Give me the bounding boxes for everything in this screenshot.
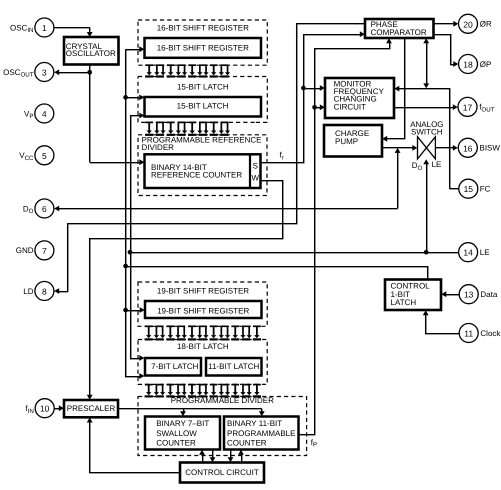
svg-text:Clock: Clock	[480, 329, 501, 338]
svg-text:PROGRAMMABLE DIVIDER: PROGRAMMABLE DIVIDER	[171, 396, 274, 405]
svg-text:CIRCUIT: CIRCUIT	[334, 103, 367, 112]
svg-text:18-BIT LATCH: 18-BIT LATCH	[177, 342, 229, 351]
svg-text:COMPARATOR: COMPARATOR	[371, 28, 427, 37]
svg-text:5: 5	[42, 151, 47, 161]
svg-text:LD: LD	[23, 287, 33, 296]
svg-text:15: 15	[464, 184, 474, 194]
svg-text:DIVIDER: DIVIDER	[142, 143, 175, 152]
svg-text:PROGRAMMABLE: PROGRAMMABLE	[227, 429, 295, 438]
svg-text:SWALLOW: SWALLOW	[156, 429, 197, 438]
svg-text:15-BIT LATCH: 15-BIT LATCH	[177, 102, 229, 111]
svg-text:BINARY 7–BIT: BINARY 7–BIT	[156, 419, 209, 428]
svg-text:8: 8	[42, 287, 47, 297]
svg-text:PUMP: PUMP	[335, 137, 358, 146]
svg-text:11: 11	[464, 329, 473, 339]
svg-text:BISW: BISW	[480, 144, 501, 153]
svg-text:10: 10	[40, 404, 50, 414]
svg-text:13: 13	[464, 290, 474, 300]
svg-text:19-BIT SHIFT REGISTER: 19-BIT SHIFT REGISTER	[157, 306, 249, 315]
svg-text:4: 4	[42, 109, 47, 119]
svg-text:18: 18	[463, 60, 473, 70]
svg-text:Data: Data	[480, 290, 497, 299]
svg-text:14: 14	[463, 248, 473, 258]
svg-text:ØP: ØP	[480, 60, 492, 69]
svg-text:11-BIT LATCH: 11-BIT LATCH	[208, 362, 259, 371]
svg-text:15-BIT LATCH: 15-BIT LATCH	[177, 82, 229, 91]
svg-text:16-BIT SHIFT REGISTER: 16-BIT SHIFT REGISTER	[157, 43, 249, 52]
svg-text:S: S	[253, 161, 258, 170]
svg-text:PRESCALER: PRESCALER	[67, 404, 116, 413]
svg-text:OSCILLATOR: OSCILLATOR	[66, 49, 116, 58]
svg-text:LATCH: LATCH	[391, 298, 417, 307]
svg-text:17: 17	[463, 102, 473, 112]
svg-text:BINARY 11-BIT: BINARY 11-BIT	[227, 419, 282, 428]
svg-text:19-BIT SHIFT REGISTER: 19-BIT SHIFT REGISTER	[157, 286, 249, 295]
svg-text:LE: LE	[480, 248, 490, 257]
svg-text:COUNTER: COUNTER	[227, 438, 267, 447]
svg-text:REFERENCE COUNTER: REFERENCE COUNTER	[151, 171, 242, 180]
svg-text:16-BIT SHIFT REGISTER: 16-BIT SHIFT REGISTER	[157, 24, 249, 33]
svg-text:SWITCH: SWITCH	[411, 127, 443, 136]
svg-text:COUNTER: COUNTER	[156, 438, 196, 447]
svg-text:1: 1	[42, 23, 47, 33]
svg-text:7-BIT LATCH: 7-BIT LATCH	[151, 362, 198, 371]
svg-text:ØR: ØR	[480, 20, 492, 29]
svg-text:CONTROL CIRCUIT: CONTROL CIRCUIT	[185, 468, 259, 477]
svg-text:GND: GND	[16, 246, 34, 255]
svg-text:FC: FC	[480, 185, 491, 194]
svg-text:6: 6	[42, 204, 47, 214]
svg-text:16: 16	[463, 143, 473, 153]
svg-text:7: 7	[42, 246, 47, 256]
svg-text:3: 3	[42, 68, 47, 78]
svg-text:LE: LE	[432, 160, 442, 169]
svg-text:20: 20	[463, 19, 473, 29]
svg-text:W: W	[252, 173, 260, 182]
